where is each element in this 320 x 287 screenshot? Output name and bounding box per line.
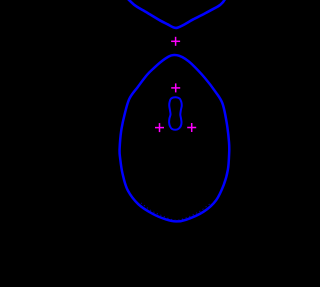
egg-shaped critical curve xyxy=(120,55,230,221)
lens position marker 3 (left) xyxy=(155,123,164,132)
lens position marker 2 (upper middle) xyxy=(171,83,180,92)
small peanut critical curve xyxy=(169,97,182,130)
lens position marker 4 (right) xyxy=(187,123,196,132)
inner faint contour at egg bottom xyxy=(141,203,211,220)
lens position marker 1 (top) xyxy=(171,37,180,46)
upper critical curve (hyperbola branch) xyxy=(128,0,226,28)
